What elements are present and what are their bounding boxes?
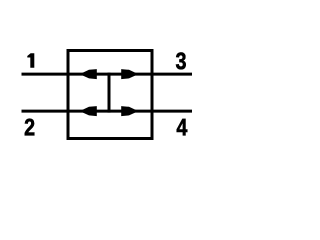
wire top-left internal segment bbox=[67, 73, 110, 76]
pin 1 label bbox=[27, 53, 34, 68]
arrowhead bottom-right (points right) bbox=[121, 106, 136, 116]
pin 4 label bbox=[177, 119, 188, 135]
wire bottom-right internal segment bbox=[109, 110, 154, 113]
wire pin 4 lead bbox=[154, 110, 193, 113]
arrowhead top-left (points left) bbox=[82, 69, 97, 79]
center vertical link bar bbox=[108, 73, 111, 113]
component body box U1 bbox=[68, 51, 152, 139]
wire pin 3 lead bbox=[154, 73, 193, 76]
arrowhead top-right (points right) bbox=[121, 69, 136, 79]
wire top-right internal segment bbox=[109, 73, 154, 76]
wire pin 2 lead bbox=[22, 110, 67, 113]
wire bottom-left internal segment bbox=[67, 110, 110, 113]
wire pin 1 lead bbox=[22, 73, 67, 76]
arrowhead bottom-left (points left) bbox=[82, 106, 97, 116]
pin 3 label bbox=[176, 52, 186, 69]
pin 2 label bbox=[25, 119, 35, 136]
